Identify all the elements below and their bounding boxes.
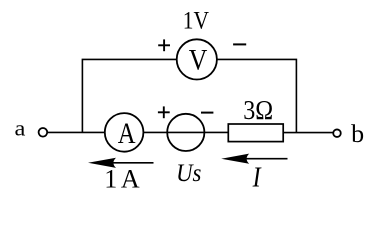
resistor 3ohm body: [228, 124, 283, 142]
svg-text:b: b: [351, 119, 364, 148]
wire: voltmeter loop (left riser, top run, right riser): [82, 59, 296, 132]
svg-text:a: a: [15, 116, 26, 141]
wire: resistor to terminal b: [284, 132, 333, 134]
svg-text:1V: 1V: [183, 8, 209, 35]
ammeter U-A circle: [105, 113, 144, 152]
node a terminal: [39, 128, 48, 137]
source plus sign: [158, 106, 170, 118]
wire: main horizontal from terminal a through ammeter and source to resistor: [48, 131, 228, 133]
svg-text:3Ω: 3Ω: [243, 95, 273, 125]
svg-text:1A: 1A: [104, 165, 140, 194]
source minus sign: [201, 112, 213, 114]
svg-text:V: V: [189, 44, 208, 77]
current arrow 1A (points left): [88, 158, 154, 168]
voltmeter U-V circle: [177, 39, 217, 79]
svg-text:I: I: [252, 163, 262, 194]
voltage source Us circle (wire passes through): [167, 114, 204, 151]
svg-text:Us: Us: [176, 158, 201, 187]
svg-text:A: A: [118, 117, 136, 150]
voltmeter minus sign: [233, 43, 246, 45]
current arrow I (points left): [221, 154, 287, 164]
node b terminal: [333, 129, 341, 137]
voltmeter plus sign: [158, 39, 170, 51]
